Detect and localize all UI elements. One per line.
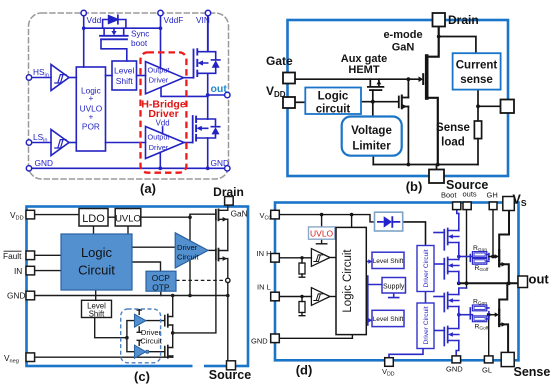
svg-text:Shift: Shift (89, 309, 105, 318)
IC boundary box (d) (275, 203, 519, 361)
labels panel c blocks (78, 213, 199, 346)
wire clamp source down (407, 107, 409, 165)
block Supply (382, 278, 406, 294)
block Logic Circuit (c) (61, 234, 132, 290)
block Level Shift (c) (82, 300, 112, 317)
wire sync gate route (101, 40, 127, 61)
transistor clamp FET (398, 97, 400, 108)
block Level Shift 1 (372, 252, 404, 268)
pin squares panel c (26, 197, 236, 370)
resistor RGon1 (472, 252, 486, 258)
wire LDO to UVLO (108, 216, 115, 218)
pin out (225, 92, 230, 97)
wire logic to driver2 (106, 142, 146, 144)
R pair 1 terminals (470, 254, 489, 262)
svg-text:Logic Circuit: Logic Circuit (342, 249, 354, 313)
wire DC2 to FET4 gate (434, 330, 444, 332)
pin VddF (158, 10, 163, 15)
wire gate rail (295, 78, 418, 80)
svg-text:Drain: Drain (213, 185, 244, 199)
wire Fault input (35, 254, 61, 256)
op-amp output driver 1 (146, 62, 184, 94)
block UVLO red (d) (309, 227, 335, 239)
wire Vdd to LDO (35, 214, 79, 216)
pin Drain (b) (433, 13, 446, 27)
wire buffer2 out (149, 351, 165, 353)
diode boot (384, 216, 392, 227)
wire IN input (35, 270, 61, 272)
blue junction dots panel d (457, 255, 461, 317)
wire drain to current sense (439, 37, 476, 54)
transistor GL FET (498, 310, 500, 320)
svg-text:Output: Output (148, 66, 170, 75)
wire LDO bottom stub (93, 226, 95, 234)
wire logic top stub (351, 215, 353, 228)
wire Vdd stub driver2 (162, 127, 164, 134)
svg-text:(b): (b) (406, 179, 423, 194)
svg-text:GaN: GaN (231, 208, 248, 218)
pin GND (c) (26, 291, 35, 300)
wire FET2 source to out row (458, 272, 460, 284)
wire FET1 drain (458, 214, 460, 231)
wire limiter bottom stub (372, 156, 374, 165)
pin IN L (271, 292, 280, 301)
wire GND left (279, 337, 352, 339)
wire logic to OCP (132, 262, 161, 271)
svg-text:Driver: Driver (141, 328, 162, 337)
pin IN (26, 266, 35, 275)
dashed OCP sense line (176, 279, 226, 281)
svg-text:Shift: Shift (116, 76, 134, 86)
ground supply (389, 293, 399, 298)
block Logic+UVLO+POR (76, 67, 105, 151)
transistor e-mode GaN (422, 74, 424, 84)
pin out (d) (518, 276, 528, 288)
wire Vdd-VddF rail (84, 27, 161, 29)
wire GL pin vertical (488, 315, 490, 356)
transistor driver pull FET lower (164, 347, 166, 357)
svg-text:IN H: IN H (257, 249, 272, 258)
wire buffer1 out (146, 320, 165, 322)
pin GH (489, 202, 497, 210)
svg-text:Circuit: Circuit (177, 253, 199, 262)
svg-text:load: load (441, 137, 465, 149)
transistor blue FET4 (443, 328, 445, 346)
IC package dashed outline (a) (29, 13, 229, 179)
pin LSin (26, 140, 31, 145)
pin sense out (b) (501, 100, 515, 114)
transistor blue FET1 (443, 230, 445, 250)
resistor sense load (474, 121, 481, 139)
wire FET4 source to GND pin (456, 341, 459, 356)
schmitt buffer IN L (311, 288, 330, 306)
wire diode to DC1 (403, 222, 426, 246)
body diode HS (208, 52, 220, 74)
wire drain to pin (227, 205, 229, 210)
wire GL drain to out row (499, 283, 507, 310)
wire logic to LS2 (366, 319, 370, 321)
wire UVLO out (141, 216, 190, 218)
block Voltage Limiter (342, 117, 402, 156)
svg-text:Boot: Boot (441, 191, 457, 200)
wire driver2 bottom to gnd (159, 152, 161, 168)
buffer triangle upper (135, 314, 146, 327)
wire buffer supply stubs (137, 310, 141, 346)
block OCP OTP (146, 271, 176, 291)
block LDO (79, 209, 108, 227)
svg-text:e-mode: e-mode (383, 29, 422, 41)
wire logic bottom stub (351, 335, 353, 339)
wire DC2 to FET3 gate (434, 296, 444, 298)
svg-text:Level Shift: Level Shift (373, 258, 404, 265)
H-Bridge Driver red dashed box (141, 52, 187, 172)
block Level Shift 2 (372, 310, 404, 326)
wire logic to clamp gate (361, 101, 399, 103)
wire logic to LS1 (366, 261, 370, 263)
wire OCP to gnd rail (160, 291, 162, 295)
wire buffer1 to logic (330, 257, 336, 259)
ground UVLO (316, 239, 326, 244)
pin circles panel a (26, 10, 230, 171)
pin GND (d) left (271, 334, 280, 343)
pin Drain (c) (225, 197, 234, 206)
svg-text:Limiter: Limiter (352, 141, 391, 153)
pin VS (503, 197, 515, 211)
body diode LS (208, 119, 220, 138)
transistor sync boot switch (104, 28, 124, 35)
wire logic to level shift (106, 75, 113, 77)
wire kelvin to source pin (227, 283, 229, 361)
svg-text:GND: GND (35, 158, 53, 168)
wire driver bottom to gnd (189, 259, 191, 295)
svg-text:boot: boot (131, 38, 148, 48)
wire gate1 to gate2 (215, 219, 217, 249)
wire internal source rail (373, 164, 478, 166)
svg-text:LDO: LDO (82, 213, 105, 225)
wire HSin to buffer (32, 77, 51, 79)
wire DC1 to DC2 (425, 292, 427, 304)
pin VDD (c) (26, 210, 35, 219)
svg-text:+: + (88, 93, 93, 103)
inverter bubble (146, 350, 149, 353)
svg-text:GL: GL (482, 366, 492, 375)
wire VIN vertical (207, 16, 209, 52)
wire drain from pin (428, 27, 439, 57)
wire GND rail (32, 167, 225, 169)
wire out row (459, 282, 519, 284)
block Logic Circuit (d) (336, 227, 366, 334)
transistor driver pull FET upper (164, 316, 166, 326)
label H-Bridge Driver (141, 99, 185, 121)
diode boot box (375, 212, 403, 231)
resistor IN H (299, 258, 305, 277)
labels panel c pins (3, 208, 248, 364)
transistor low-voltage FET (215, 250, 217, 260)
pin VCC (271, 210, 280, 219)
wire logic to supply (366, 276, 382, 325)
schmitt buffer IN H (311, 249, 330, 267)
pin GND right (225, 166, 230, 171)
svg-text:Voltage: Voltage (351, 125, 392, 137)
junction dots black panel d (300, 213, 510, 317)
transistor blue FET2 (443, 259, 445, 279)
svg-text:Logic: Logic (318, 91, 349, 103)
wire LS drain to out node (207, 95, 209, 119)
svg-text:GaN: GaN (392, 42, 415, 54)
resistor IN L (299, 297, 305, 316)
wire driver2 to LS gate (184, 142, 193, 144)
svg-text:GND: GND (211, 158, 229, 168)
svg-text:sense: sense (460, 74, 493, 86)
pin Vdd (81, 10, 86, 15)
svg-text:IN: IN (14, 266, 22, 276)
svg-text:Level: Level (114, 66, 134, 76)
pin Source (b) (429, 170, 444, 184)
transistor GaN cascode top (215, 210, 217, 220)
labels RGon RGoff (473, 245, 489, 332)
svg-text:OTP: OTP (152, 282, 170, 292)
svg-text:GH: GH (487, 191, 498, 200)
svg-text:Driver: Driver (148, 108, 178, 120)
wire boot to FET1 drain (457, 210, 459, 214)
wire LSin to buffer (32, 142, 51, 144)
wire to R pair 2 (459, 314, 471, 316)
wire FET1-FET2 node (458, 243, 460, 260)
wire buffer input manifold (127, 321, 135, 352)
transistor blue FET3 (443, 294, 445, 312)
pin HSin (26, 75, 31, 80)
svg-text:Fault: Fault (3, 251, 22, 261)
wire GND rail (35, 295, 228, 297)
wire upper FET drain to gnd (172, 296, 174, 317)
wire R2 out to GL gate (489, 314, 495, 316)
wire driver1 return to out node (161, 87, 208, 96)
pin Fault (26, 251, 35, 260)
wire GL source to Sense (499, 324, 508, 352)
labels panel b (266, 13, 497, 192)
block UVLO (c) (115, 209, 141, 227)
svg-text:VIN: VIN (196, 15, 210, 25)
wire diode bypass (103, 20, 126, 29)
wire GaN source down (428, 98, 438, 165)
svg-text:(d): (d) (296, 363, 313, 378)
wire driver apex to gate2 (208, 249, 216, 251)
wire FET3-FET4 node (458, 307, 460, 329)
buffer triangle lower (135, 345, 146, 358)
pin squares panel d left (271, 197, 528, 367)
wire to R pair 1 (459, 256, 471, 258)
wire lower FET source (172, 356, 174, 357)
border gap artifact (193, 364, 205, 369)
pin GND left (26, 166, 31, 171)
dashed driver circuit box (121, 309, 161, 363)
svg-text:Logic: Logic (81, 245, 113, 260)
pin GND (d) bottom (452, 356, 461, 363)
wire sense node to right pin (478, 105, 501, 107)
wire FET3 drain to outs (459, 288, 467, 295)
wire buffer2 to logic (330, 296, 336, 298)
wire GH pin vertical (492, 210, 494, 257)
transistor GH FET (498, 250, 500, 259)
wire logic to level shift (95, 290, 97, 300)
svg-text:(a): (a) (140, 181, 156, 196)
wire DC2 to VDD pin (389, 349, 423, 358)
svg-text:outs: outs (463, 190, 477, 199)
wire buffer to logic (69, 77, 76, 79)
resistor RGon2 (472, 305, 486, 311)
resistor RGoff1 (472, 258, 486, 264)
svg-text:circuit: circuit (316, 104, 351, 116)
svg-text:Driver: Driver (177, 243, 198, 252)
pin Gate (283, 73, 295, 84)
pin GL (484, 356, 493, 363)
svg-text:UVLO: UVLO (115, 213, 141, 224)
svg-text:Vdd: Vdd (87, 15, 102, 25)
transistor aux gate HEMT (370, 79, 379, 86)
wire driver1 to HS gate (184, 77, 194, 79)
wire GaN gate (190, 213, 216, 215)
transistor HS MOSFET (193, 50, 195, 78)
R pair 2 terminals (470, 308, 489, 319)
svg-text:Gate: Gate (266, 54, 293, 68)
block Current sense (453, 53, 501, 89)
svg-text:VddF: VddF (164, 15, 184, 25)
svg-text:GND: GND (7, 291, 25, 301)
wire GH drain to Vs (499, 210, 509, 250)
op-amp output driver 2 (146, 127, 185, 159)
pin VIN (205, 10, 210, 15)
pin Boot (453, 202, 461, 210)
block Driver Circuit 2 (417, 303, 434, 349)
wire Vdd to logic (295, 101, 305, 103)
pin Source (c) (227, 361, 236, 370)
wire R1 out to GH gate (489, 256, 495, 258)
svg-text:Driver: Driver (149, 76, 169, 85)
svg-text:HEMT: HEMT (348, 64, 379, 76)
wire VIN to HS drain (207, 16, 209, 52)
svg-text:Output: Output (148, 133, 170, 142)
wire clamp drain to gate rail (407, 79, 409, 97)
wire level shift to driver1 (137, 75, 146, 77)
wire gate node to lower driver (173, 259, 216, 333)
svg-text:Driver Circuit: Driver Circuit (423, 306, 430, 344)
wire source to kelvin node (227, 259, 229, 279)
node kelvin circle (226, 278, 230, 282)
wire DC1 to FET2 gate (434, 263, 444, 265)
wire GH source to out row (499, 264, 509, 283)
pin outs (463, 202, 471, 210)
wire IN H (279, 257, 311, 259)
svg-text:out: out (211, 83, 228, 95)
pin VDD (b) (283, 97, 295, 108)
svg-text:+: + (88, 112, 93, 122)
wire logic to driver (132, 246, 175, 248)
svg-text:(c): (c) (134, 369, 150, 384)
svg-text:GND: GND (251, 337, 268, 346)
svg-text:Circuit: Circuit (78, 263, 115, 278)
wire buffer to logic (69, 142, 76, 144)
svg-text:Supply: Supply (383, 283, 405, 290)
svg-text:Sense: Sense (436, 122, 470, 134)
svg-text:UVLO: UVLO (310, 228, 334, 238)
svg-text:Source: Source (209, 368, 251, 382)
svg-text:POR: POR (82, 122, 100, 132)
wire DC1 to FET1 gate (434, 232, 444, 234)
junction dots panel b (371, 35, 480, 167)
wire IN L (279, 296, 311, 298)
wire level shift to buffers (95, 318, 127, 338)
wire VddF vertical (160, 16, 162, 69)
wire FET mid node (172, 325, 174, 348)
wire inter-FET node (227, 219, 229, 250)
resistor RGoff2 (472, 316, 486, 322)
block Level Shift (112, 61, 137, 90)
junction dots panel a (82, 26, 210, 170)
schmitt buffer HS (51, 65, 69, 91)
wire sense load to rail (477, 139, 479, 165)
pin VDD (d) (385, 358, 394, 367)
junction dots panel c (125, 215, 230, 339)
svg-text:Driver: Driver (149, 143, 169, 152)
svg-text:out: out (529, 272, 550, 287)
pin Sense (501, 352, 514, 366)
wire out (208, 94, 225, 96)
wire aux gate down to limiter (372, 90, 374, 116)
wire UVLO bottom stub (127, 226, 129, 234)
svg-text:Sense: Sense (514, 365, 550, 379)
svg-text:Circuit: Circuit (140, 337, 162, 346)
wire outs vertical (466, 210, 468, 288)
svg-text:Sync: Sync (131, 29, 149, 39)
wire HS source to out node (207, 73, 209, 95)
block Driver Circuit triangle (175, 233, 208, 268)
svg-text:Level Shift: Level Shift (373, 316, 404, 323)
labels panel a (33, 15, 229, 168)
wire driver supply vertical (189, 214, 191, 240)
wire UVLO up stub (321, 215, 323, 227)
svg-text:IN L: IN L (257, 283, 271, 292)
labels panel d pins (251, 190, 498, 378)
wire Vdd vertical into logic (83, 16, 85, 67)
IC boundary box (c) (27, 207, 249, 367)
wire Vcc rail (279, 215, 374, 222)
block Logic circuit (b) (305, 88, 361, 115)
svg-text:Drain: Drain (448, 13, 479, 27)
svg-text:Current: Current (456, 60, 498, 72)
wire Vneg rail (35, 356, 173, 358)
wire source pin drop (436, 165, 438, 170)
schmitt buffer LS (51, 130, 69, 156)
IC boundary box (b) (288, 20, 509, 176)
block Driver Circuit 1 (417, 246, 434, 292)
wire LS source to gnd (207, 138, 209, 168)
pin squares panel b (283, 13, 514, 183)
pin IN H (271, 254, 280, 263)
wire current sense to sense node (477, 90, 479, 121)
transistor LS MOSFET (192, 116, 194, 143)
svg-text:Driver Circuit: Driver Circuit (423, 249, 430, 287)
svg-text:GND: GND (446, 365, 463, 374)
diode sync boot (109, 16, 118, 24)
pin Vneg (26, 353, 35, 362)
